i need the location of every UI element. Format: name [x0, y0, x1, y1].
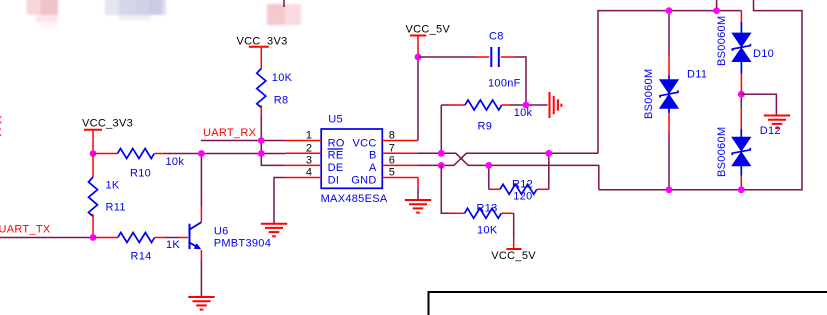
- svg-text:U5: U5: [328, 114, 343, 126]
- svg-text:R10: R10: [130, 168, 151, 180]
- redacted label blur B: [105, 0, 166, 21]
- svg-text:D11: D11: [687, 69, 707, 81]
- resistor R12: [489, 153, 549, 202]
- junction node D10/D12/gnd: [738, 91, 745, 98]
- sheet border corner (bottom right): [429, 292, 827, 315]
- junction node bottom edge D11: [666, 186, 673, 193]
- wire up from top edge: [716, 0, 718, 11]
- wire emitter down: [200, 250, 202, 261]
- power port VCC_3V3 (top): [237, 36, 288, 69]
- wire R14 to base: [166, 237, 178, 239]
- svg-text:5: 5: [389, 167, 395, 179]
- pin 4: [286, 177, 321, 179]
- pin 7: [382, 152, 418, 154]
- svg-text:X: X: [0, 115, 3, 127]
- power port VCC_5V (top): [406, 23, 451, 57]
- svg-text:VCC_3V3: VCC_3V3: [82, 118, 133, 130]
- wire pin7 to junction: [418, 152, 441, 154]
- ground below U6: [188, 297, 214, 310]
- wire crossover lower (pin6 to upper line): [441, 153, 598, 165]
- wire bottom edge + right edge + top right: [599, 0, 802, 190]
- svg-text:UART_RX: UART_RX: [203, 127, 257, 139]
- wire R8 down: [261, 115, 286, 165]
- svg-text:BS0060M: BS0060M: [716, 127, 728, 177]
- junction node top edge D11: [666, 7, 673, 14]
- IC U5 MAX485ESA body: [321, 114, 388, 205]
- svg-text:1: 1: [306, 130, 312, 142]
- resistor R8: [257, 68, 293, 115]
- wire C8 right down to R9 row: [515, 57, 527, 105]
- svg-text:120: 120: [513, 190, 532, 202]
- wire box left edge + top edge: [598, 11, 741, 154]
- svg-text:BS0060M: BS0060M: [643, 69, 655, 119]
- svg-text:C8: C8: [489, 31, 504, 43]
- ground below DI: [261, 224, 287, 237]
- svg-text:R9: R9: [478, 121, 493, 133]
- svg-text:MAX485ESA: MAX485ESA: [321, 193, 388, 205]
- svg-text:R14: R14: [131, 250, 152, 262]
- diode D11: [643, 11, 707, 190]
- wire DI down to ground: [274, 178, 286, 224]
- svg-text:B: B: [369, 149, 377, 161]
- svg-text:3: 3: [306, 155, 312, 167]
- svg-text:6: 6: [389, 155, 395, 167]
- pin 1: [286, 140, 321, 142]
- svg-text:RE: RE: [328, 149, 344, 161]
- svg-text:GND: GND: [351, 174, 376, 186]
- svg-text:A: A: [369, 162, 377, 174]
- svg-text:1K: 1K: [166, 239, 180, 251]
- svg-text:DE: DE: [328, 162, 344, 174]
- wire pin8 up to VCC node: [417, 57, 419, 141]
- resistor R9: [441, 100, 532, 133]
- svg-text:VCC: VCC: [352, 138, 376, 150]
- svg-text:4: 4: [306, 167, 312, 179]
- diode D12: [716, 94, 781, 190]
- svg-text:RO: RO: [328, 138, 345, 150]
- resistor R13: [441, 165, 513, 236]
- wire B column (R9 to pin7 row): [440, 105, 442, 153]
- svg-text:D12: D12: [760, 125, 781, 137]
- svg-text:10K: 10K: [477, 225, 498, 237]
- wire UART_RX row: [201, 140, 286, 142]
- svg-text:10k: 10k: [166, 156, 185, 168]
- svg-text:UART_TX: UART_TX: [0, 223, 51, 235]
- wire crossover upper (pin7 to lower line): [441, 153, 599, 190]
- capacitor C8: [418, 31, 521, 90]
- ground right of D12: [764, 116, 790, 129]
- junction node pin6: [438, 162, 445, 169]
- wire R9 to ground: [510, 104, 548, 106]
- ground (right-pointing): [550, 92, 562, 118]
- wire stub at top into blur C: [283, 0, 285, 7]
- redacted label blur C: [267, 4, 301, 25]
- wire D10/D12 node to ground: [741, 94, 776, 114]
- power port VCC_5V (bottom): [491, 213, 536, 262]
- pin 5: [382, 177, 418, 179]
- svg-text:D10: D10: [753, 48, 774, 60]
- svg-text:X: X: [0, 127, 3, 139]
- pin 6: [382, 164, 418, 166]
- svg-text:10K: 10K: [272, 72, 293, 84]
- svg-text:100nF: 100nF: [488, 78, 521, 90]
- junction node row2/collector: [198, 150, 205, 157]
- transistor U6 PMBT3904: [189, 222, 272, 250]
- diode D10: [716, 11, 774, 94]
- svg-text:VCC_5V: VCC_5V: [491, 250, 536, 262]
- svg-text:DI: DI: [328, 174, 340, 186]
- pin 2: [286, 152, 321, 154]
- svg-text:U6: U6: [214, 226, 229, 238]
- junction node row1/R8: [258, 137, 265, 144]
- junction node UART_TX/R11/R14: [90, 234, 97, 241]
- wire UART_TX row: [0, 237, 93, 239]
- junction node R12 left: [485, 162, 492, 169]
- wire collector up: [200, 206, 202, 222]
- wire row2: [164, 153, 286, 155]
- junction node top edge riser: [713, 7, 720, 14]
- svg-text:1K: 1K: [106, 180, 120, 192]
- pin 3: [286, 164, 321, 166]
- power port VCC_3V3 (left): [82, 118, 133, 154]
- svg-text:VCC_5V: VCC_5V: [406, 23, 451, 35]
- svg-text:R13: R13: [477, 203, 498, 215]
- svg-text:2: 2: [306, 143, 312, 155]
- svg-text:10k: 10k: [514, 107, 533, 119]
- pin 8: [382, 140, 418, 142]
- redacted label blur A: [27, 0, 59, 28]
- wire pin5 down to ground: [417, 178, 419, 189]
- junction node R12 right: [545, 150, 552, 157]
- junction node VCC_5V/C8/pin8: [415, 54, 422, 61]
- resistor R14: [93, 233, 180, 263]
- svg-text:R11: R11: [106, 202, 126, 214]
- resistor R11: [89, 154, 126, 238]
- junction node VCC_3V3/R10/R11: [90, 150, 97, 157]
- svg-text:BS0060M: BS0060M: [716, 16, 728, 66]
- ground below pin 5: [405, 200, 431, 213]
- svg-text:PMBT3904: PMBT3904: [214, 238, 271, 250]
- junction node row2/R8: [258, 150, 265, 157]
- svg-text:7: 7: [389, 143, 395, 155]
- junction node pin7: [438, 150, 445, 157]
- svg-text:8: 8: [389, 130, 395, 142]
- svg-text:R12: R12: [512, 179, 533, 191]
- svg-text:R8: R8: [274, 95, 289, 107]
- resistor R10: [93, 149, 184, 180]
- junction node bottom edge D12: [738, 186, 745, 193]
- wire pin6 to junction: [418, 164, 441, 166]
- junction node C8/R9: [523, 102, 530, 109]
